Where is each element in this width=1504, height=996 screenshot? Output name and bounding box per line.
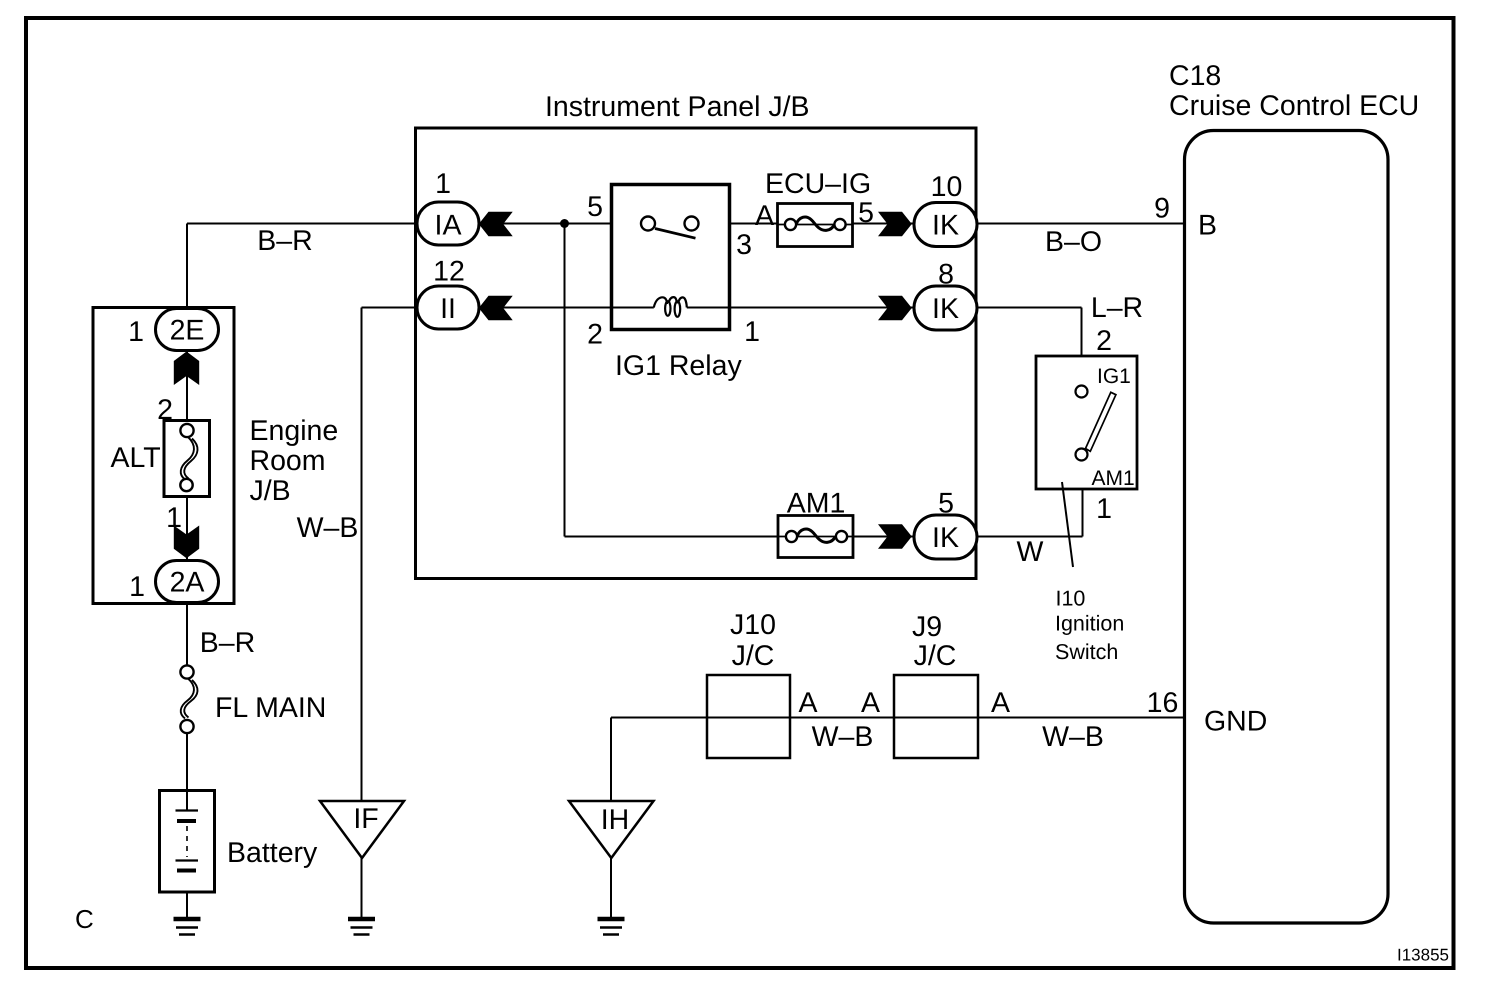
- svg-text:2: 2: [1096, 325, 1112, 357]
- svg-text:B–O: B–O: [1045, 226, 1102, 258]
- svg-text:2A: 2A: [170, 567, 205, 599]
- svg-text:A: A: [861, 687, 880, 719]
- svg-text:5: 5: [587, 191, 603, 223]
- svg-text:1: 1: [129, 571, 145, 603]
- svg-text:IF: IF: [353, 803, 378, 835]
- svg-text:I10: I10: [1056, 587, 1086, 611]
- svg-text:5: 5: [858, 197, 874, 229]
- svg-text:8: 8: [938, 259, 954, 291]
- svg-text:Instrument Panel J/B: Instrument Panel J/B: [545, 91, 810, 123]
- svg-text:J/C: J/C: [732, 640, 775, 672]
- svg-text:IH: IH: [601, 804, 630, 836]
- svg-text:AM1: AM1: [787, 488, 846, 520]
- svg-text:3: 3: [736, 229, 752, 261]
- svg-text:B: B: [1198, 210, 1217, 242]
- svg-text:Battery: Battery: [227, 837, 318, 869]
- svg-text:FL MAIN: FL MAIN: [215, 692, 326, 724]
- svg-text:IG1: IG1: [1097, 365, 1131, 388]
- svg-text:IK: IK: [932, 293, 959, 325]
- svg-text:9: 9: [1154, 193, 1170, 225]
- svg-text:A: A: [755, 200, 774, 232]
- svg-text:Cruise Control ECU: Cruise Control ECU: [1169, 90, 1419, 122]
- svg-text:W–B: W–B: [297, 512, 359, 544]
- svg-text:ALT: ALT: [111, 442, 161, 474]
- svg-text:B–R: B–R: [200, 627, 255, 659]
- svg-text:Room: Room: [250, 445, 326, 477]
- svg-text:I13855: I13855: [1397, 946, 1449, 965]
- svg-text:W–B: W–B: [1042, 721, 1104, 753]
- svg-text:C18: C18: [1169, 60, 1221, 92]
- svg-text:12: 12: [433, 256, 465, 288]
- svg-text:2E: 2E: [170, 315, 205, 347]
- svg-text:J9: J9: [912, 611, 942, 643]
- svg-text:J/B: J/B: [250, 475, 291, 507]
- svg-text:J10: J10: [730, 609, 776, 641]
- svg-text:W: W: [1017, 536, 1044, 568]
- svg-text:1: 1: [1096, 493, 1112, 525]
- svg-text:C: C: [75, 904, 94, 934]
- svg-text:1: 1: [435, 168, 451, 200]
- svg-text:W–B: W–B: [812, 721, 874, 753]
- svg-text:AM1: AM1: [1092, 467, 1135, 490]
- svg-text:L–R: L–R: [1091, 292, 1143, 324]
- svg-text:A: A: [798, 687, 817, 719]
- svg-text:IA: IA: [435, 210, 462, 242]
- svg-text:Ignition: Ignition: [1055, 612, 1124, 636]
- svg-text:IK: IK: [932, 522, 959, 554]
- svg-text:Engine: Engine: [250, 415, 339, 447]
- svg-text:B–R: B–R: [257, 225, 312, 257]
- svg-text:II: II: [440, 293, 456, 325]
- svg-text:10: 10: [931, 171, 963, 203]
- svg-text:IK: IK: [932, 210, 959, 242]
- svg-text:1: 1: [744, 316, 760, 348]
- svg-text:Switch: Switch: [1055, 640, 1118, 664]
- svg-text:1: 1: [166, 502, 182, 534]
- svg-text:1: 1: [128, 316, 144, 348]
- svg-text:IG1 Relay: IG1 Relay: [615, 350, 742, 382]
- svg-text:ECU–IG: ECU–IG: [765, 168, 871, 200]
- svg-text:J/C: J/C: [914, 640, 957, 672]
- svg-text:2: 2: [157, 394, 173, 426]
- svg-text:A: A: [991, 687, 1010, 719]
- svg-text:16: 16: [1147, 687, 1179, 719]
- svg-text:5: 5: [938, 488, 954, 520]
- svg-text:2: 2: [587, 319, 603, 351]
- svg-text:GND: GND: [1204, 706, 1267, 738]
